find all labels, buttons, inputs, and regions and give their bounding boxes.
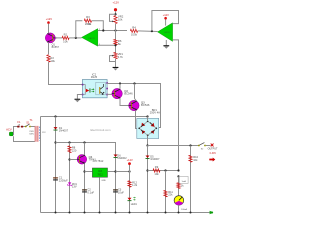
capacitor C2 (82, 189, 87, 192)
svg-text:BC546: BC546 (124, 92, 133, 96)
ground U2 (163, 45, 169, 49)
node Q4 collector junction (83, 141, 85, 143)
wire U1 pin2 node to divider and R4 (98, 30, 127, 32)
wire regulator ground pin (99, 177, 101, 212)
label Q4 (89, 155, 97, 162)
resistor R4 (130, 29, 137, 32)
capacitor C3 (113, 189, 118, 192)
wire Q3 emitter to bridge left (136, 111, 140, 129)
wire R6 to pin3 node (115, 45, 117, 53)
wire switch to transformer primary (31, 126, 35, 128)
wire R3 to inverting input (92, 21, 104, 31)
node U2 feedback junction (151, 30, 153, 32)
svg-text:10uF: 10uF (118, 190, 124, 194)
svg-text:50Hz: 50Hz (29, 134, 34, 136)
node left rail tap (54, 141, 56, 143)
wire +12V to U2 V+ pin (165, 19, 167, 25)
svg-text:LED1: LED1 (131, 203, 138, 206)
node meter label tap (177, 175, 179, 177)
switch S1 (25, 124, 31, 128)
wire D5 branch (147, 146, 149, 213)
node R9 junction (146, 169, 148, 171)
label R9 value (154, 165, 159, 176)
capacitor C1 (53, 177, 58, 180)
svg-text:R3: R3 (86, 15, 90, 19)
wire +12V node link (116, 171, 130, 173)
wire U2 feedback loop (152, 11, 179, 32)
node +12V supply (top left) (46, 17, 53, 24)
switch S2 (198, 143, 206, 147)
label ZD1 (72, 182, 78, 189)
label C1 2200uF (59, 176, 68, 183)
svg-text:1N4007: 1N4007 (59, 129, 69, 133)
svg-text:T1: T1 (29, 118, 33, 122)
wire VR1 to ground (115, 59, 117, 67)
svg-text:250V 4A: 250V 4A (150, 111, 160, 115)
svg-text:1N4002: 1N4002 (117, 156, 127, 160)
source AC input (6, 128, 14, 136)
label R10 value (193, 155, 198, 162)
resistor R3 feedback (84, 19, 91, 22)
svg-text:4.7k: 4.7k (118, 55, 124, 59)
node bridge top junction (146, 115, 148, 117)
node Q1 base pin tick (55, 37, 56, 39)
svg-text:GND: GND (101, 180, 106, 182)
label D5 1N4007 (150, 154, 160, 161)
ground optocoupler (75, 99, 81, 103)
node regulator output junction (114, 170, 116, 172)
zener ZD1 (67, 182, 71, 186)
wire Q2 collector (119, 84, 121, 89)
wire meter branch (178, 177, 180, 196)
wire bridge bottom to right rail (147, 136, 149, 146)
label U3 4N25 (91, 73, 98, 80)
svg-text:BC557: BC557 (52, 46, 60, 49)
svg-text:13V: 13V (72, 185, 77, 189)
wire right output rail (148, 145, 199, 147)
wire Q1 base to R1 (55, 37, 62, 39)
svg-text:ACV: ACV (6, 128, 12, 132)
node R3 junction (102, 29, 104, 31)
label R1 value (63, 32, 68, 43)
transistor Q2 (112, 88, 122, 98)
resistor R11 (164, 190, 167, 197)
wire switch to output terminal (206, 145, 211, 147)
svg-text:OUTPUT: OUTPUT (208, 148, 218, 151)
fuse F1 (17, 126, 23, 128)
resistor R10 (190, 146, 192, 213)
label VR2 value (118, 14, 124, 21)
label D6 1N4002 (117, 153, 127, 160)
wire +12V terminal to LED branch (129, 165, 131, 213)
label Q1 BC557 (52, 44, 60, 50)
node meter shunt junction (164, 169, 166, 171)
svg-text:10k: 10k (50, 59, 55, 63)
transistor Q3 (129, 100, 139, 110)
svg-text:IC3 7812: IC3 7812 (93, 159, 104, 163)
op-amp U2 (158, 23, 173, 42)
svg-text:10k: 10k (193, 158, 198, 162)
node +12V supply (divider top) (113, 0, 120, 11)
wire opto collector rail to bridge right (107, 84, 160, 128)
wire Q4 base (70, 159, 78, 161)
label R8 value (72, 146, 77, 153)
svg-text:+12V: +12V (163, 13, 169, 17)
wire opto emitter to Q2 base (107, 93, 112, 96)
svg-text:+12V: +12V (127, 158, 133, 162)
label OUTPUT (208, 148, 218, 155)
label box M1 (179, 176, 188, 183)
wire D1 branch (55, 117, 57, 213)
wire left supply rail (56, 143, 116, 173)
wire to regulator input (85, 171, 93, 173)
svg-text:10k: 10k (63, 39, 68, 43)
resistor R12 (128, 181, 131, 187)
svg-text:+12V: +12V (46, 17, 53, 21)
label output arrow (209, 158, 215, 162)
resistor R13 (177, 183, 180, 189)
svg-text:1mA: 1mA (182, 180, 187, 183)
potentiometer VR2 wiper loop (110, 14, 116, 21)
svg-text:7812: 7812 (97, 173, 103, 176)
op-amp U1 (82, 29, 98, 47)
wire transformer secondary line (40, 117, 42, 213)
label VR1 value (118, 52, 124, 59)
node LED branch junction (128, 170, 130, 172)
wire R1 to op-amp U1 output node (69, 37, 81, 39)
svg-text:100k: 100k (131, 32, 138, 36)
node Q4 base junction (68, 158, 70, 160)
label D1 1N4007 (59, 126, 69, 133)
svg-text:100uA: 100uA (181, 208, 187, 211)
label S2 (201, 148, 204, 150)
label R12 value (132, 180, 138, 187)
wire feedback riser (76, 21, 83, 38)
resistor VR2 (114, 16, 117, 24)
label Q2 BC546 (124, 89, 133, 96)
node +12V supply (U2 power) (163, 13, 169, 20)
svg-text:220: 220 (72, 148, 77, 152)
wire Q3 collector (135, 99, 137, 102)
svg-text:ElecCircuit.com: ElecCircuit.com (90, 128, 111, 132)
node rail junctions (55, 212, 192, 214)
svg-text:R9: R9 (155, 165, 159, 169)
label Q3 BC546 (141, 101, 150, 108)
resistor R1 (62, 36, 69, 39)
svg-text:10k: 10k (154, 172, 159, 176)
node Q2 collector junction (119, 82, 121, 84)
svg-text:1.2k: 1.2k (132, 183, 138, 187)
wire D6 to +12V node (115, 158, 117, 213)
label U1 pins (88, 23, 100, 46)
svg-text:BC546: BC546 (141, 103, 150, 107)
transistor Q1 (45, 33, 55, 43)
wire +12V to Q1 collector (48, 24, 50, 33)
svg-text:22k: 22k (168, 193, 173, 197)
svg-text:0-30V: 0-30V (210, 152, 217, 155)
svg-text:CA741: CA741 (88, 37, 95, 40)
wire Q1 emitter to R2 (48, 43, 50, 55)
label BR1 rating (150, 108, 160, 115)
optocoupler U3 body (82, 80, 108, 98)
LED1 (128, 197, 136, 201)
node Q3 collector junction (133, 82, 135, 84)
label C3 value (118, 188, 124, 195)
resistor R9 (153, 169, 160, 172)
label R11 value (168, 190, 173, 197)
resistor R6 (114, 39, 117, 45)
svg-text:S2: S2 (201, 148, 204, 150)
label T1 ratings (29, 118, 46, 136)
node divider mid junction (114, 29, 116, 31)
wire shunt branch (165, 171, 167, 213)
node negative output terminal (210, 211, 214, 215)
wire +12V to VR2 (115, 11, 117, 15)
svg-text:4N25: 4N25 (91, 75, 98, 79)
wire regulator output (108, 171, 116, 173)
label R6 value (118, 39, 122, 46)
wire U2 pin3 sense line (173, 40, 179, 171)
wire AC hot to fuse (14, 127, 18, 134)
transformer T1 (35, 126, 40, 142)
wire opto cathode to ground (77, 95, 82, 99)
svg-text:2200uF: 2200uF (59, 178, 68, 182)
label R2 value (50, 56, 55, 63)
node right rail junction (146, 144, 148, 146)
svg-text:IC1: IC1 (88, 23, 92, 26)
node +12V output terminal (127, 158, 133, 165)
meter M1 (174, 196, 184, 206)
transistor Q4 (77, 155, 87, 165)
potentiometer VR1 wiper loop (110, 56, 116, 62)
label F1 2A (17, 120, 21, 126)
wire bridge top corner stub (147, 117, 149, 122)
diode D6 (114, 155, 118, 158)
diode D1 (54, 127, 58, 130)
label R4 value (131, 25, 138, 36)
wire U2 V- pin to ground (165, 40, 167, 45)
wire AC neutral to transformer primary (14, 136, 35, 141)
label C2 value (87, 188, 94, 195)
node R10 junction (189, 144, 191, 146)
wire R2 to optocoupler anode (49, 62, 83, 84)
ground divider (113, 67, 119, 71)
wire bottom rail (41, 212, 210, 214)
wire Q2 emitter to Q3 base (120, 98, 129, 105)
diode D5 (146, 156, 150, 159)
svg-text:R4: R4 (132, 25, 136, 29)
wire Q4 emitter branch (84, 163, 86, 212)
wire Q4 collector (84, 143, 86, 156)
label R3 value (85, 15, 92, 26)
node pin3 junction (114, 44, 116, 46)
node VR2 top junction (114, 13, 116, 15)
wire VR2 to node (115, 24, 117, 41)
svg-text:10k: 10k (118, 17, 123, 21)
node feedback junction at U1 output (75, 37, 77, 39)
wire secondary top feed (41, 116, 148, 118)
svg-text:12V: 12V (42, 132, 46, 134)
svg-text:+12V: +12V (113, 0, 120, 4)
bridge rectifier BR1 (137, 118, 159, 138)
node output terminal X (211, 144, 214, 147)
svg-text:0.1uF: 0.1uF (87, 190, 94, 194)
svg-text:R1: R1 (64, 32, 68, 36)
regulator IC3 7812 (92, 168, 107, 177)
wire meter to rail (178, 205, 180, 212)
svg-text:1N4007: 1N4007 (150, 157, 160, 161)
wire R9 row (148, 170, 179, 172)
wire R4 to op-amp U2 output (138, 30, 158, 33)
node D1 tap junction (54, 115, 56, 117)
node sense line junction (177, 169, 179, 171)
svg-text:1k: 1k (181, 184, 184, 188)
wire fuse to switch S1 (23, 126, 25, 128)
wire R8 branch (69, 143, 71, 213)
node R8 junction (68, 141, 70, 143)
svg-text:CA741: CA741 (164, 31, 171, 34)
resistor R2 (47, 55, 50, 62)
wire U1 pin3 to divider (98, 44, 116, 46)
resistor VR1 (114, 52, 117, 58)
node regulator input junction (83, 170, 85, 172)
resistor R8 (68, 146, 71, 153)
